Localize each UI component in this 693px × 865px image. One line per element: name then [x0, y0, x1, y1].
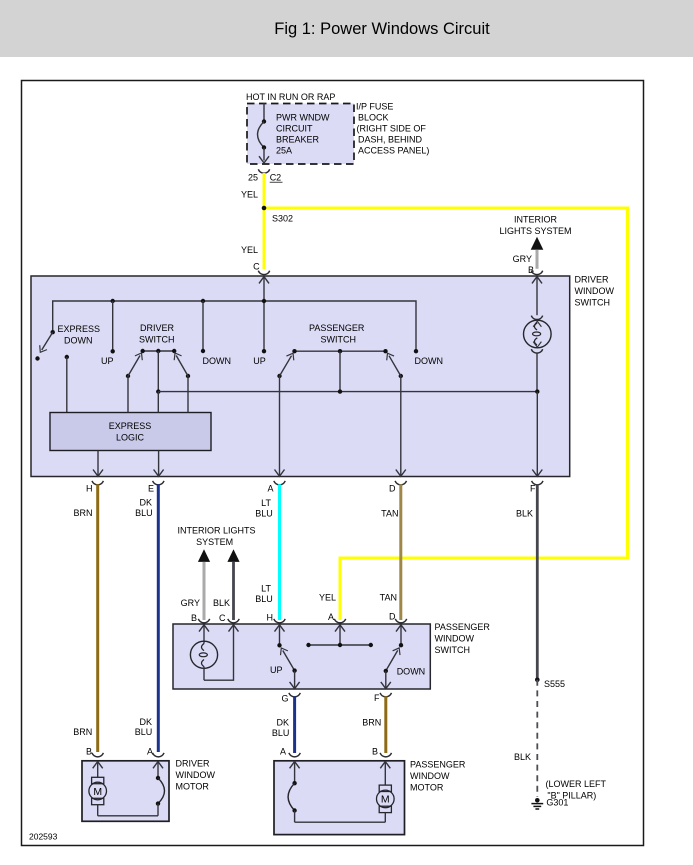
- wire TAN passenger down: [399, 484, 402, 620]
- svg-text:F: F: [530, 484, 536, 494]
- pin A entry arrow: [153, 762, 163, 769]
- svg-text:M: M: [381, 794, 390, 806]
- svg-text:SYSTEM: SYSTEM: [196, 537, 233, 547]
- logic output to pin H: [93, 451, 103, 477]
- pin F exit arrow: [532, 470, 542, 477]
- connector C: [219, 613, 239, 623]
- express logic module: [50, 413, 211, 451]
- svg-text:BLU: BLU: [255, 508, 273, 518]
- connector E: [148, 481, 164, 494]
- svg-text:GRY: GRY: [181, 598, 200, 608]
- svg-text:BREAKER: BREAKER: [276, 135, 320, 145]
- svg-text:WINDOW: WINDOW: [176, 770, 216, 780]
- svg-text:WINDOW: WINDOW: [435, 633, 475, 643]
- internal rail wire: [158, 391, 537, 393]
- svg-text:YEL: YEL: [241, 245, 258, 255]
- connector B (passenger motor): [372, 747, 392, 757]
- svg-text:D: D: [389, 612, 396, 622]
- svg-text:DK: DK: [139, 498, 152, 508]
- pin B entry arrow: [93, 762, 103, 769]
- svg-text:SWITCH: SWITCH: [435, 645, 471, 655]
- svg-text:TAN: TAN: [381, 508, 398, 518]
- svg-text:A: A: [328, 612, 334, 622]
- wire LT BLU passenger up: [278, 484, 281, 620]
- svg-text:S555: S555: [544, 679, 565, 689]
- wire BLK dashed to ground: [536, 680, 538, 797]
- splice S555: [535, 678, 565, 690]
- wire YEL from breaker to S302 and switch: [263, 173, 266, 269]
- passenger window motor box: [274, 761, 405, 835]
- svg-text:B: B: [372, 747, 378, 757]
- svg-text:Fig 1: Power Windows Circuit: Fig 1: Power Windows Circuit: [274, 20, 490, 38]
- wire YEL branch to passenger switch: [264, 208, 628, 620]
- wire DK BLU driver down: [157, 484, 160, 752]
- header bar: [0, 0, 693, 57]
- svg-text:BLU: BLU: [135, 508, 153, 518]
- motor M (passenger): [377, 762, 395, 823]
- driver switch right blade: [171, 351, 190, 378]
- express down switch: [35, 330, 55, 361]
- label DK BLU (driver motor): [135, 717, 153, 737]
- svg-text:202593: 202593: [29, 832, 58, 842]
- svg-text:(LOWER LEFT: (LOWER LEFT: [546, 779, 607, 789]
- svg-text:M: M: [93, 786, 102, 798]
- svg-text:MOTOR: MOTOR: [410, 783, 444, 793]
- illumination lamp (passenger switch): [190, 625, 217, 680]
- wire pivot D to pin D: [400, 376, 402, 477]
- svg-text:SWITCH: SWITCH: [575, 298, 611, 308]
- svg-text:LIGHTS SYSTEM: LIGHTS SYSTEM: [499, 226, 571, 236]
- connector A: [267, 481, 285, 494]
- svg-text:H: H: [267, 613, 274, 623]
- motor M (driver): [89, 762, 107, 816]
- schematic outer frame: [22, 81, 644, 846]
- svg-text:BRN: BRN: [73, 727, 92, 737]
- pin A exit arrow: [275, 470, 285, 477]
- svg-text:G: G: [281, 694, 288, 704]
- svg-text:E: E: [148, 484, 154, 494]
- splice S302: [262, 206, 293, 224]
- label PASSENGER WINDOW SWITCH: [435, 622, 491, 655]
- svg-text:DASH, BEHIND: DASH, BEHIND: [358, 135, 423, 145]
- svg-text:EXPRESS: EXPRESS: [58, 324, 101, 334]
- pin B entry arrow: [380, 762, 390, 769]
- wire GRY lamp feed: [203, 562, 206, 620]
- node C into driver window switch: [253, 262, 270, 275]
- svg-text:MOTOR: MOTOR: [176, 782, 210, 792]
- svg-text:BLK: BLK: [213, 598, 230, 608]
- svg-text:S302: S302: [272, 214, 293, 224]
- svg-text:DRIVER: DRIVER: [575, 275, 610, 285]
- svg-text:BLK: BLK: [514, 752, 531, 762]
- svg-text:LT: LT: [261, 498, 271, 508]
- connector A: [328, 612, 346, 623]
- pin B entry arrow: [532, 277, 542, 284]
- svg-text:F: F: [374, 693, 380, 703]
- wire pivot R to logic: [187, 376, 189, 413]
- pin D exit arrow: [396, 470, 406, 477]
- svg-text:HOT IN RUN OR RAP: HOT IN RUN OR RAP: [246, 92, 335, 102]
- label LT BLU: [255, 583, 273, 604]
- svg-text:B: B: [191, 613, 197, 623]
- driver switch left blade: [126, 351, 145, 378]
- svg-text:GRY: GRY: [513, 254, 532, 264]
- svg-text:UP: UP: [253, 356, 266, 366]
- down switch: [384, 625, 404, 673]
- svg-text:INTERIOR: INTERIOR: [514, 214, 558, 224]
- connector A (driver motor): [147, 747, 164, 757]
- svg-text:DRIVER: DRIVER: [140, 323, 175, 333]
- connector H: [86, 481, 103, 494]
- svg-text:YEL: YEL: [241, 189, 258, 199]
- connector B (driver motor): [86, 747, 103, 757]
- connector C2 pin 25: [248, 169, 283, 182]
- label INTERIOR LIGHTS SYSTEM (top right): [499, 214, 571, 250]
- svg-text:BLU: BLU: [255, 594, 273, 604]
- label INTERIOR LIGHTS SYSTEM (middle): [177, 526, 255, 562]
- junction on bus at C wire: [262, 299, 266, 303]
- motor bottom rail (driver): [98, 815, 158, 817]
- svg-text:EXPRESS: EXPRESS: [109, 421, 152, 431]
- wire from C through bus to UP contact: [263, 277, 265, 352]
- svg-text:UP: UP: [101, 356, 114, 366]
- svg-text:D: D: [389, 484, 396, 494]
- label DRIVER SWITCH: [139, 323, 175, 345]
- contact at C wire UP2: [262, 349, 266, 353]
- svg-text:YEL: YEL: [319, 592, 336, 602]
- wire up blade to pin G: [290, 671, 300, 689]
- pin C entry arrow: [259, 277, 269, 284]
- svg-text:A: A: [280, 747, 286, 757]
- up switch: [277, 625, 297, 673]
- pin A entry arrow: [335, 625, 345, 632]
- svg-text:C: C: [253, 262, 260, 272]
- express down contact wire to logic: [65, 355, 69, 413]
- wire DK BLU to passenger motor: [293, 696, 296, 753]
- svg-text:BLOCK: BLOCK: [358, 113, 389, 123]
- svg-text:BLU: BLU: [272, 728, 290, 738]
- ground G301: [531, 798, 568, 809]
- svg-text:PWR WNDW: PWR WNDW: [276, 113, 330, 123]
- junction rail to pin F: [535, 389, 539, 393]
- wire to pin F: [536, 392, 538, 477]
- wire rail to logic: [157, 392, 159, 413]
- wire down blade to pin F: [381, 671, 391, 689]
- svg-text:C2: C2: [270, 172, 282, 182]
- svg-text:H: H: [86, 484, 93, 494]
- driver window motor box: [82, 761, 169, 822]
- passenger switch common junction: [338, 351, 342, 394]
- svg-text:LT: LT: [261, 583, 271, 593]
- svg-text:PASSENGER: PASSENGER: [410, 760, 466, 770]
- label DK BLU: [135, 498, 153, 518]
- connector A (passenger motor): [280, 747, 300, 757]
- driver window switch box: [31, 276, 570, 477]
- svg-text:INTERIOR LIGHTS: INTERIOR LIGHTS: [177, 526, 255, 536]
- svg-text:WINDOW: WINDOW: [410, 771, 450, 781]
- svg-text:DOWN: DOWN: [64, 335, 93, 345]
- lamp return wire to pin C: [204, 625, 234, 680]
- motor bottom rail (passenger): [295, 821, 386, 823]
- pin D entry arrow: [396, 625, 406, 632]
- svg-text:G301: G301: [546, 798, 568, 808]
- label DK BLU: [272, 718, 290, 738]
- svg-text:TAN: TAN: [380, 592, 397, 602]
- passenger switch left blade: [277, 351, 296, 378]
- circuit breaker PWR WNDW 25A: [258, 103, 330, 163]
- junction on bus at UP1: [111, 299, 115, 303]
- svg-text:DRIVER: DRIVER: [176, 759, 211, 769]
- svg-text:B: B: [86, 747, 92, 757]
- svg-text:A: A: [267, 484, 273, 494]
- thermal limiter arc (passenger): [288, 762, 297, 823]
- label PASSENGER WINDOW MOTOR: [410, 760, 466, 793]
- illumination lamp (driver switch): [524, 277, 552, 392]
- wire pivot A to pin A: [279, 376, 281, 477]
- svg-text:SWITCH: SWITCH: [321, 335, 357, 345]
- svg-text:CIRCUIT: CIRCUIT: [276, 124, 313, 134]
- passenger switch contacts: [292, 349, 387, 353]
- svg-text:A: A: [147, 747, 153, 757]
- pin A entry arrow: [290, 762, 300, 769]
- svg-text:DOWN: DOWN: [415, 356, 444, 366]
- junction on bus at DOWN1: [201, 299, 205, 303]
- svg-text:DK: DK: [276, 718, 289, 728]
- label PASSENGER SWITCH: [309, 323, 365, 345]
- connector G: [281, 693, 300, 704]
- wire GRY to interior lights: [536, 250, 539, 269]
- wire BRN to passenger motor: [384, 696, 387, 753]
- svg-text:DK: DK: [139, 717, 152, 727]
- passenger switch right blade: [384, 351, 403, 378]
- driver switch contacts: [141, 349, 177, 353]
- svg-text:DOWN: DOWN: [397, 667, 426, 677]
- connector F: [530, 481, 543, 494]
- node B into driver window switch: [528, 265, 543, 275]
- wire DOWN1 contact: [201, 301, 205, 353]
- connector F: [374, 693, 391, 703]
- svg-text:UP: UP: [270, 665, 283, 675]
- connector H: [267, 613, 286, 623]
- wire pivot L to logic: [127, 376, 129, 413]
- connector B: [191, 613, 210, 623]
- label LT BLU: [255, 498, 273, 518]
- label location B pillar: [546, 779, 607, 800]
- svg-text:BRN: BRN: [73, 508, 92, 518]
- svg-text:25A: 25A: [276, 146, 292, 156]
- svg-text:WINDOW: WINDOW: [575, 286, 615, 296]
- svg-text:(RIGHT SIDE OF: (RIGHT SIDE OF: [357, 124, 427, 134]
- label I/P FUSE BLOCK location: [356, 102, 429, 156]
- contact DOWN2: [414, 349, 418, 353]
- label DRIVER WINDOW SWITCH: [575, 275, 615, 308]
- wire BRN driver up: [96, 484, 99, 752]
- logic output to pin E: [154, 451, 164, 477]
- wire UP1 contact: [111, 301, 115, 353]
- connector D: [389, 612, 407, 623]
- svg-text:25: 25: [248, 172, 258, 182]
- connector D: [389, 481, 406, 494]
- svg-text:DOWN: DOWN: [203, 356, 232, 366]
- driver switch common to internal rail: [156, 351, 160, 394]
- svg-text:PASSENGER: PASSENGER: [435, 622, 491, 632]
- svg-text:BLU: BLU: [135, 727, 153, 737]
- thermal limiter arc (driver): [156, 762, 165, 816]
- label EXPRESS DOWN: [58, 324, 101, 346]
- svg-text:ACCESS PANEL): ACCESS PANEL): [358, 146, 429, 156]
- supply bar: [306, 625, 373, 647]
- passenger window switch box: [173, 624, 430, 689]
- svg-text:C: C: [219, 613, 226, 623]
- svg-text:BLK: BLK: [516, 508, 533, 518]
- wire BLK lamp return: [232, 562, 235, 620]
- pin H entry arrow: [275, 625, 285, 632]
- svg-text:BRN: BRN: [362, 718, 381, 728]
- svg-text:PASSENGER: PASSENGER: [309, 323, 365, 333]
- pin B entry arrow: [199, 625, 209, 632]
- svg-text:LOGIC: LOGIC: [116, 433, 145, 443]
- pin C entry arrow: [229, 625, 239, 632]
- internal supply bus: [53, 301, 416, 351]
- svg-text:I/P FUSE: I/P FUSE: [356, 102, 393, 112]
- label DRIVER WINDOW MOTOR: [176, 759, 216, 792]
- svg-text:SWITCH: SWITCH: [139, 335, 175, 345]
- circuit breaker dashed box (I/P fuse block): [247, 104, 354, 165]
- wire BLK ground feed: [536, 484, 539, 680]
